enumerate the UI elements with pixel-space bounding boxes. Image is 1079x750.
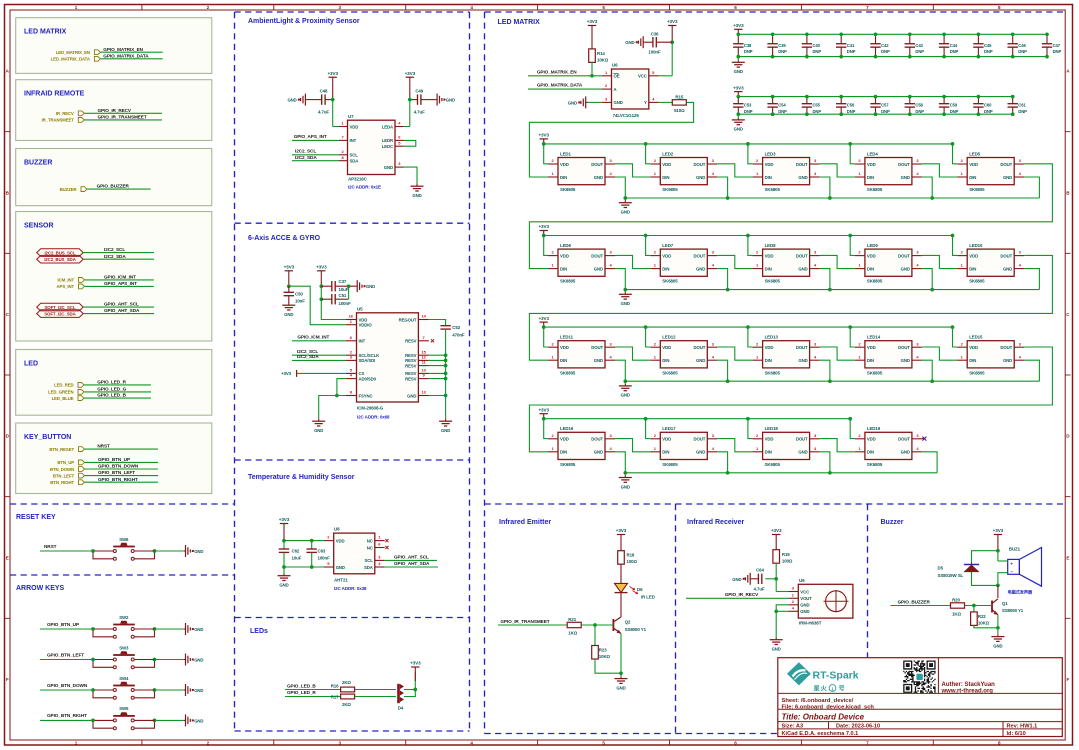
LED10 pin 3 DOUT <box>1014 255 1024 257</box>
junction GND bus LED2 <box>726 196 730 200</box>
svg-text:DNP: DNP <box>847 49 856 54</box>
section divider LED MATRIX left edge <box>484 12 486 734</box>
wire +3V3 to C50/VDDIO <box>288 276 290 286</box>
svg-text:LEDC: LEDC <box>382 144 393 149</box>
resistor R22 <box>973 606 975 612</box>
LED4 pin 3 DOUT <box>912 163 922 165</box>
wire +3V3 to R19 <box>775 540 777 550</box>
LED3 pin 1 DIN <box>753 176 763 178</box>
junction at switch SW4 left <box>91 688 95 692</box>
junction C41 top <box>839 32 843 36</box>
wire R20 to Q1 base <box>965 605 993 607</box>
svg-text:SS8019W SL: SS8019W SL <box>938 573 964 578</box>
svg-text:AmbientLight & Proximity Senso: AmbientLight & Proximity Sensor <box>248 18 360 25</box>
ground IR emitter <box>620 676 622 678</box>
svg-text:I2C ADDR: 0x68: I2C ADDR: 0x68 <box>357 414 390 419</box>
wire U9 GND pins to ground <box>776 605 788 638</box>
junction emitter/GND <box>619 671 623 675</box>
junction C57 bottom <box>874 112 878 116</box>
LED12 pin 4 GND <box>707 359 717 361</box>
wire net I2C2_SCL <box>83 252 154 254</box>
junction rail LED17 <box>644 417 648 421</box>
svg-text:VDD: VDD <box>662 437 671 442</box>
svg-text:GND: GND <box>1003 266 1012 271</box>
svg-text:Size: A3: Size: A3 <box>782 723 804 729</box>
LED9 pin 3 DOUT <box>912 255 922 257</box>
svg-text:GPIO_MATRIX_DATA: GPIO_MATRIX_DATA <box>537 83 583 88</box>
svg-text:GPIO_LED_B: GPIO_LED_B <box>97 393 126 398</box>
svg-text:GND: GND <box>732 577 741 582</box>
LED16 pin 1 DIN <box>548 451 558 453</box>
svg-text:RESV: RESV <box>405 363 417 368</box>
LED1 pin 1 DIN <box>548 176 558 178</box>
LED16 pin 3 DOUT <box>605 438 615 440</box>
svg-text:10KΩ: 10KΩ <box>597 57 609 62</box>
svg-text:DOUT: DOUT <box>898 162 910 167</box>
wire rail to LED16 VDD <box>544 419 548 439</box>
svg-text:−: − <box>1010 569 1013 574</box>
U5 pin 11 RESV <box>418 365 429 367</box>
LED7 pin 4 GND <box>707 268 717 270</box>
svg-text:C42: C42 <box>881 43 889 48</box>
svg-text:SW6: SW6 <box>119 537 129 542</box>
no-connect LED19 DOUT <box>922 438 925 440</box>
wire LED1 GND to bus <box>615 177 625 198</box>
svg-text:DIN: DIN <box>560 358 567 363</box>
LED driver LED3 SK6805 <box>763 158 810 185</box>
LED19 pin 1 DIN <box>855 451 865 453</box>
LED19 pin 4 GND <box>912 451 922 453</box>
junction C51 left <box>319 297 323 301</box>
junction rail LED5 <box>951 142 955 146</box>
U8 pin 1 NC <box>375 540 385 542</box>
U5 pin 1 VDDIO <box>346 324 357 326</box>
wire VDD into pin <box>333 126 339 128</box>
svg-text:BTN_DOWN: BTN_DOWN <box>50 467 74 472</box>
switch SW2 bypass wires <box>93 629 113 637</box>
capacitor C52 <box>440 325 450 327</box>
junction RESV column <box>444 377 448 381</box>
svg-text:Auther: StackYuan: Auther: StackYuan <box>942 682 996 688</box>
LED11 pin 3 DOUT <box>605 346 615 348</box>
svg-text:DNP: DNP <box>1053 49 1062 54</box>
resistor R17 <box>341 694 355 699</box>
junction C37/C51 right <box>347 284 351 288</box>
svg-text:2KΩ: 2KΩ <box>342 702 351 707</box>
wire GND bus (C38..) <box>738 56 1047 58</box>
svg-text:DOUT: DOUT <box>591 162 603 167</box>
junction rail LED13 <box>746 325 750 329</box>
wire rail drop to LED3 VDD <box>748 144 753 164</box>
svg-text:10KΩ: 10KΩ <box>978 621 990 626</box>
svg-text:R16: R16 <box>331 684 339 689</box>
LED15 pin 1 DIN <box>957 359 967 361</box>
svg-text:BUZZER: BUZZER <box>24 159 52 166</box>
U7 pin 4 LEDA <box>395 126 404 128</box>
svg-text:GND: GND <box>279 583 288 588</box>
sheet box LED MATRIX <box>16 18 212 74</box>
ground LED row 2 <box>624 292 626 294</box>
junction GND bus LED9 <box>930 288 934 292</box>
svg-text:VDD: VDD <box>560 162 569 167</box>
svg-text:2KΩ: 2KΩ <box>342 680 351 685</box>
resistor R15 <box>672 100 686 105</box>
wire GND bus row 4 <box>625 472 937 474</box>
svg-text:C58: C58 <box>915 103 923 108</box>
svg-text:VDD: VDD <box>969 162 978 167</box>
junction C55 top <box>805 95 809 99</box>
svg-text:+3V3: +3V3 <box>733 23 744 28</box>
wire net GPIO_LED_R <box>84 384 151 386</box>
LED18 pin 1 DIN <box>753 451 763 453</box>
junction C42 bottom <box>874 55 878 59</box>
junction at switch SW3 right <box>153 658 157 662</box>
svg-text:LED16: LED16 <box>560 426 574 431</box>
switch SW5 bypass wires <box>93 720 113 728</box>
svg-text:号: 号 <box>839 685 845 693</box>
svg-text:GND: GND <box>696 358 705 363</box>
wire net GPIO_APS_INT <box>85 285 154 287</box>
svg-text:SK6805: SK6805 <box>662 279 678 284</box>
svg-text:C49: C49 <box>415 88 423 93</box>
svg-text:SS8050 Y1: SS8050 Y1 <box>1002 608 1024 613</box>
junction R20/R22 <box>972 604 976 608</box>
ground below U7 <box>416 184 418 186</box>
U9 pin 3 VCC <box>788 591 798 593</box>
junction C64/VCC <box>774 577 778 581</box>
svg-text:GND: GND <box>1003 358 1012 363</box>
wire to diode D5 top <box>972 551 998 563</box>
wire net GPIO_BTN_DOWN <box>85 468 158 470</box>
wire row 3 DOUT to next row DIN link <box>529 347 1052 452</box>
LED17 pin 1 DIN <box>650 451 660 453</box>
wire GPIO_MATRIX_DATA (right) <box>528 88 602 90</box>
svg-text:DOUT: DOUT <box>898 437 910 442</box>
LED3 pin 2 VDD <box>753 163 763 165</box>
wire RESV/GND pin to column <box>429 378 446 380</box>
wire RESV/GND pin to column <box>429 372 446 374</box>
ground right of C37 <box>355 285 357 287</box>
svg-text:LED10: LED10 <box>969 243 983 248</box>
wire net NRST <box>85 448 158 450</box>
svg-text:GPIO_MATRIX_EN: GPIO_MATRIX_EN <box>537 69 577 74</box>
svg-text:4.7uF: 4.7uF <box>754 587 765 592</box>
svg-text:GND: GND <box>194 658 203 663</box>
ground below U9 <box>775 638 777 640</box>
wire Q1 emitter down <box>997 615 999 628</box>
svg-text:DNP: DNP <box>950 109 959 114</box>
junction at switch SW4 right <box>153 688 157 692</box>
resistor R19 <box>773 550 780 564</box>
LED15 pin 4 GND <box>1014 359 1024 361</box>
junction RESV column <box>444 364 448 368</box>
svg-text:Title: Onboard Device: Title: Onboard Device <box>782 713 865 722</box>
wire row 2 DOUT to next row DIN link <box>529 255 1052 360</box>
U5 pin 5 CS <box>346 372 357 374</box>
wire rail drop to LED9 VDD <box>850 236 855 256</box>
U5 pin 7 RESV <box>418 340 429 342</box>
sheet box LED <box>16 350 212 416</box>
U6 pin 1 OE <box>602 75 612 77</box>
ground LED row 3 <box>624 384 626 386</box>
global label SOFT_I2C_SCL <box>37 303 83 311</box>
svg-text:GPIO_BUZZER: GPIO_BUZZER <box>97 184 130 189</box>
svg-text:GPIO_BTN_DOWN: GPIO_BTN_DOWN <box>98 464 139 469</box>
LED driver LED5 SK6805 <box>967 158 1014 185</box>
svg-text:GPIO_BTN_LEFT: GPIO_BTN_LEFT <box>47 652 84 657</box>
capacitor C59 <box>943 97 945 104</box>
svg-text:GND: GND <box>621 301 630 306</box>
junction C54 bottom <box>771 112 775 116</box>
svg-text:F: F <box>1066 677 1069 682</box>
svg-text:SK6805: SK6805 <box>765 462 781 467</box>
U5 pin 13 GND <box>418 395 429 397</box>
svg-text:C57: C57 <box>881 103 889 108</box>
capacitor C61 <box>1012 97 1014 104</box>
svg-text:DOUT: DOUT <box>796 253 808 258</box>
svg-text:AHT21: AHT21 <box>334 577 348 582</box>
wire bank ground stub <box>737 114 739 118</box>
U9 pin 2 GND <box>788 604 798 606</box>
svg-text:GPIO_LED_B: GPIO_LED_B <box>287 683 316 688</box>
U5 pin 2 SCL/SCLK <box>346 354 357 356</box>
svg-text:VDD: VDD <box>969 253 978 258</box>
junction RESV column <box>444 372 448 376</box>
svg-text:SOFT_I2C_SDA: SOFT_I2C_SDA <box>44 312 76 317</box>
wire GPIO_IR_RECV <box>686 597 788 599</box>
wire rail drop to LED2 VDD <box>646 144 651 164</box>
junction C37 left <box>319 284 323 288</box>
svg-text:VDD: VDD <box>969 345 978 350</box>
section divider Temperature/LEDs <box>235 617 470 619</box>
LED1 pin 3 DOUT <box>605 163 615 165</box>
wire net GPIO_AHT_SDA <box>83 313 154 315</box>
svg-text:GND: GND <box>800 609 809 614</box>
svg-text:LED1: LED1 <box>560 151 571 156</box>
junction C43 bottom <box>908 55 912 59</box>
capacitor C40 <box>806 34 808 43</box>
svg-text:RESV: RESV <box>405 339 417 344</box>
LED4 pin 1 DIN <box>855 176 865 178</box>
wire LED18 GND to bus <box>820 452 830 473</box>
svg-text:电磁式发声器: 电磁式发声器 <box>1008 589 1033 596</box>
wire LED14 GND to bus <box>922 360 932 381</box>
junction C60 top <box>977 95 981 99</box>
svg-text:DIN: DIN <box>662 266 669 271</box>
svg-text:4.7uF: 4.7uF <box>414 110 425 115</box>
svg-text:GND: GND <box>366 284 375 289</box>
section divider Emitter bottom <box>485 733 779 735</box>
svg-text:VDD: VDD <box>765 345 774 350</box>
svg-text:GND: GND <box>621 210 630 215</box>
section divider left column RESET KEY <box>10 503 235 505</box>
svg-text:GPIO_AHT_SCL: GPIO_AHT_SCL <box>394 554 429 559</box>
junction C53 top <box>736 95 740 99</box>
junction C40 bottom <box>805 55 809 59</box>
capacitor C36 <box>645 41 653 43</box>
wire +3V3 to C49 and LEDA <box>409 82 411 99</box>
LED9 pin 2 VDD <box>855 255 865 257</box>
capacitor C63 <box>311 541 313 549</box>
wire net GPIO_MATRIX_DATA <box>101 58 163 60</box>
LED9 pin 4 GND <box>912 268 922 270</box>
svg-text:SK6805: SK6805 <box>765 370 781 375</box>
svg-text:GPIO_BTN_LEFT: GPIO_BTN_LEFT <box>98 470 135 475</box>
junction at switch SW5 right <box>153 719 157 723</box>
capacitor C44 <box>943 34 945 43</box>
capacitor C51 <box>321 298 332 300</box>
junction GND bus LED13 <box>828 379 832 383</box>
junction D4/+3V3 <box>413 688 417 692</box>
svg-text:GPIO_LED_R: GPIO_LED_R <box>287 690 316 695</box>
svg-text:SK6805: SK6805 <box>969 187 985 192</box>
svg-text:DOUT: DOUT <box>694 437 706 442</box>
wire RESV/GND pin to column <box>429 359 446 361</box>
LED11 pin 4 GND <box>605 359 615 361</box>
LED12 pin 3 DOUT <box>707 346 717 348</box>
wire LED4 GND to bus <box>922 177 932 198</box>
svg-text:DOUT: DOUT <box>591 437 603 442</box>
wire R16 to D4 <box>355 689 396 691</box>
LED driver LED14 SK6805 <box>865 341 912 368</box>
LED10 pin 2 VDD <box>957 255 967 257</box>
svg-text:GPIO_BTN_DOWN: GPIO_BTN_DOWN <box>47 683 88 688</box>
junction C41 bottom <box>839 55 843 59</box>
svg-text:GND: GND <box>734 127 743 132</box>
op-amp U7 AP3216C body <box>348 120 396 174</box>
wire R14 to GPIO_MATRIX_EN <box>591 62 593 75</box>
svg-text:R22: R22 <box>978 614 986 619</box>
U5 pin 4 AD0/SD0 <box>346 378 357 380</box>
svg-text:+3V3: +3V3 <box>538 133 549 138</box>
junction C36/VCC branch <box>670 40 674 44</box>
svg-text:GND: GND <box>901 175 910 180</box>
svg-text:APS_INT: APS_INT <box>57 284 75 289</box>
LED13 pin 2 VDD <box>753 346 763 348</box>
wire GPIO_LED_B to R16 <box>285 689 341 691</box>
svg-text:GND: GND <box>384 165 393 170</box>
junction VDD/C63 <box>310 539 314 543</box>
wire D4 to +3V3 <box>404 689 415 691</box>
svg-text:GND: GND <box>287 98 296 103</box>
LED driver LED16 SK6805 <box>558 432 605 459</box>
wire GND pin to ground <box>404 167 418 184</box>
wire LED11 GND to bus <box>615 360 625 381</box>
LED3 pin 3 DOUT <box>810 163 820 165</box>
wire R23 to emitter <box>595 659 621 673</box>
svg-text:ICM_INT: ICM_INT <box>58 278 75 283</box>
LED6 pin 2 VDD <box>548 255 558 257</box>
svg-text:Infrared Emitter: Infrared Emitter <box>499 519 551 526</box>
svg-text:www.rt-thread.org: www.rt-thread.org <box>941 689 994 695</box>
ground below C52 column <box>445 419 447 421</box>
svg-text:DOUT: DOUT <box>796 162 808 167</box>
svg-text:LEDR: LEDR <box>382 138 394 143</box>
svg-text:Buzzer: Buzzer <box>881 519 904 526</box>
svg-text:RESV: RESV <box>405 376 417 381</box>
wire LED14 DOUT to LED15 DIN <box>922 347 957 360</box>
svg-text:C39: C39 <box>778 43 786 48</box>
svg-text:GPIO_ICM_INT: GPIO_ICM_INT <box>297 335 329 340</box>
svg-text:100Ω: 100Ω <box>627 559 638 564</box>
wire GND bus row 2 <box>625 289 1039 291</box>
svg-text:+3V3: +3V3 <box>733 85 744 90</box>
junction C49/+3V3 <box>408 98 412 102</box>
junction C40 top <box>805 32 809 36</box>
wire rail drop to LED18 VDD <box>748 419 753 439</box>
LED5 pin 1 DIN <box>957 176 967 178</box>
junction RESV column <box>444 353 448 357</box>
svg-text:GPIO_ICM_INT: GPIO_ICM_INT <box>104 275 136 280</box>
svg-text:I2C2_SCL: I2C2_SCL <box>104 247 125 252</box>
svg-text:SK6805: SK6805 <box>867 187 883 192</box>
svg-text:R18: R18 <box>627 553 635 558</box>
wire LED5 GND to bus (last) <box>1024 177 1039 198</box>
svg-text:100nF: 100nF <box>339 301 352 306</box>
wire U6 Y to R15 <box>659 101 673 103</box>
wire LED17 GND to bus <box>717 452 727 473</box>
svg-text:GND: GND <box>901 358 910 363</box>
wire LED3 DOUT to LED4 DIN <box>820 164 855 177</box>
junction rail LED18 <box>746 417 750 421</box>
ground at switch SW5 <box>184 719 186 721</box>
svg-text:D6: D6 <box>637 587 643 592</box>
wire rail to LED11 VDD <box>544 327 548 347</box>
svg-text:GND: GND <box>194 627 203 632</box>
svg-text:LED MATRIX: LED MATRIX <box>24 29 67 36</box>
svg-text:GND: GND <box>798 175 807 180</box>
svg-text:C41: C41 <box>847 43 855 48</box>
frame row ticks and letters <box>5 131 11 133</box>
junction GND bus LED18 <box>828 471 832 475</box>
transistor Q2 SS8050 <box>612 619 614 631</box>
junction R21/R23 <box>593 623 597 627</box>
junction GND bus LED12 <box>726 379 730 383</box>
wire I2C2_SDA (U5) <box>292 359 346 361</box>
svg-text:GND: GND <box>696 266 705 271</box>
wire +3V3 to C48 and VDD <box>332 82 334 99</box>
junction rail LED15 <box>951 325 955 329</box>
wire +3V3 to VDD bus <box>283 529 285 541</box>
wire switch SW3 to ground <box>134 659 154 661</box>
wire rail drop to LED5 VDD <box>953 144 958 164</box>
junction at switch SW5 left <box>91 719 95 723</box>
svg-text:LED18: LED18 <box>765 426 779 431</box>
wire LED9 GND to bus <box>922 269 932 290</box>
wire LED11 DOUT to LED12 DIN <box>615 347 650 360</box>
capacitor C42 <box>875 34 877 43</box>
wire switch SW6 to ground <box>134 550 154 552</box>
U8 pin 2 VDD <box>324 540 334 542</box>
svg-text:ICM-20608-G: ICM-20608-G <box>357 406 384 411</box>
svg-text:VCC: VCC <box>800 589 809 594</box>
LED driver LED11 SK6805 <box>558 341 605 368</box>
wire emitter to ground <box>997 628 999 635</box>
svg-text:+3V3: +3V3 <box>279 517 290 522</box>
junction Q1 emitter/GND <box>996 626 1000 630</box>
capacitor C37 <box>321 285 332 287</box>
LED14 pin 2 VDD <box>855 346 865 348</box>
svg-text:SK6805: SK6805 <box>560 279 576 284</box>
U5 pin 3 SDA/SDI <box>346 359 357 361</box>
wire VCC to +3V3 <box>659 75 673 77</box>
svg-text:C37: C37 <box>339 279 347 284</box>
svg-text:NRST: NRST <box>44 544 57 549</box>
svg-text:LED5: LED5 <box>969 151 980 156</box>
svg-text:DNP: DNP <box>1018 49 1027 54</box>
svg-text:C52: C52 <box>452 325 460 330</box>
LED D6 IR <box>615 583 628 592</box>
